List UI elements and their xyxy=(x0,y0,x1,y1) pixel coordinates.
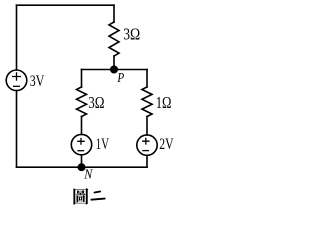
wire right drop from top xyxy=(113,5,115,22)
svg-text:3Ω: 3Ω xyxy=(123,25,140,44)
voltage source 2V circle xyxy=(137,135,157,155)
svg-text:1Ω: 1Ω xyxy=(156,93,172,112)
wire right branch upper xyxy=(146,70,148,88)
wire middle branch upper xyxy=(81,70,83,88)
2V source minus sign xyxy=(142,150,149,152)
wire right resistor to 2V source xyxy=(146,117,148,135)
wire bottom xyxy=(17,166,148,168)
node N xyxy=(78,163,86,171)
caption glyph tu (figure) xyxy=(73,188,88,205)
svg-text:1V: 1V xyxy=(96,136,109,153)
caption glyph er (two) xyxy=(91,192,104,200)
svg-text:3Ω: 3Ω xyxy=(88,93,104,112)
3V source minus sign xyxy=(13,85,20,87)
wire 1V source to node N xyxy=(81,155,83,167)
1V source minus sign xyxy=(77,150,84,152)
resistor 3ohm middle xyxy=(77,87,87,117)
wire 2V source to bottom xyxy=(146,155,148,167)
svg-text:P: P xyxy=(117,70,125,85)
wire middle resistor to 1V source xyxy=(81,117,83,135)
2V source plus sign xyxy=(142,138,150,145)
voltage source 3V circle xyxy=(6,70,27,91)
wire left upper xyxy=(16,5,18,70)
3V source plus sign xyxy=(12,72,21,80)
svg-text:3V: 3V xyxy=(30,73,45,90)
voltage source 1V circle xyxy=(71,134,91,154)
svg-text:2V: 2V xyxy=(159,136,174,153)
svg-text:N: N xyxy=(83,167,93,182)
wire left lower xyxy=(16,91,18,168)
node P xyxy=(110,66,118,74)
resistor 3ohm top xyxy=(109,22,119,56)
wire top xyxy=(17,4,115,6)
1V source plus sign xyxy=(77,138,85,145)
wire P horizontal xyxy=(82,69,148,71)
wire resistor to node P xyxy=(113,56,115,70)
resistor 1ohm right xyxy=(142,87,152,117)
